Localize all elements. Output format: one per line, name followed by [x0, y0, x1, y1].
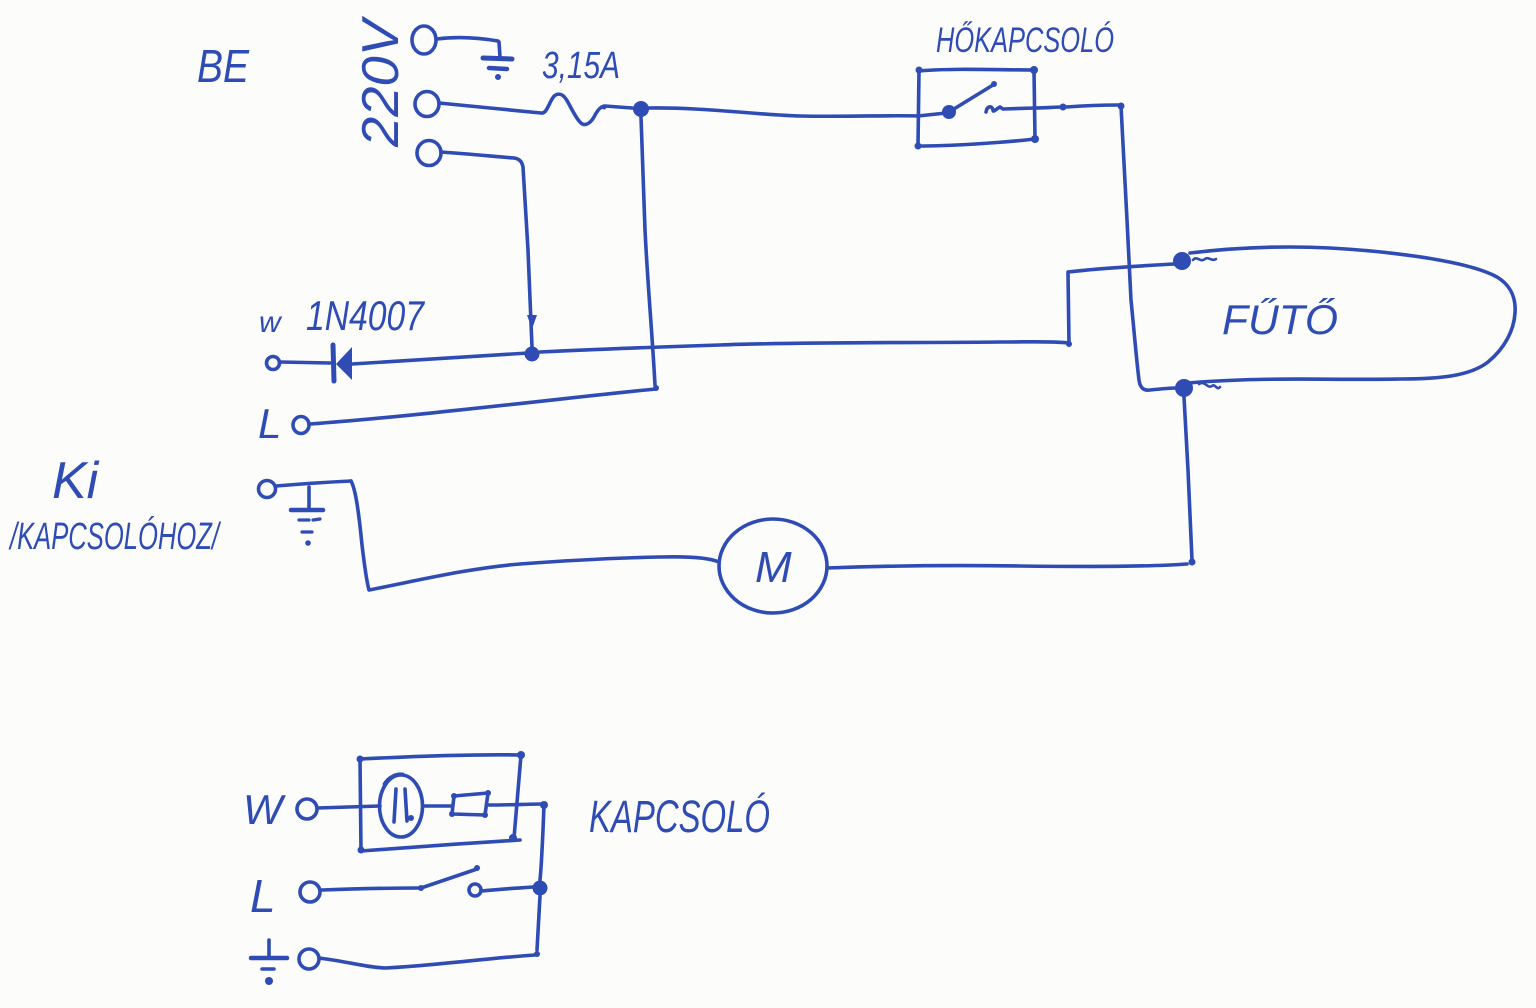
svg-text:Ki: Ki — [52, 452, 100, 510]
svg-text:W: W — [243, 786, 286, 833]
svg-text:1N4007: 1N4007 — [306, 292, 425, 339]
svg-text:220V: 220V — [352, 15, 410, 148]
svg-text:M: M — [755, 543, 792, 592]
svg-text:/KAPCSOLÓHOZ/: /KAPCSOLÓHOZ/ — [8, 515, 221, 558]
svg-text:L: L — [250, 870, 276, 922]
svg-text:3,15A: 3,15A — [542, 45, 620, 87]
svg-text:KAPCSOLÓ: KAPCSOLÓ — [589, 791, 770, 842]
svg-text:BE: BE — [197, 40, 250, 92]
svg-text:w: w — [259, 306, 283, 339]
svg-text:HŐKAPCSOLÓ: HŐKAPCSOLÓ — [936, 21, 1114, 60]
svg-text:FŰTŐ: FŰTŐ — [1222, 296, 1338, 343]
svg-text:L: L — [258, 400, 281, 447]
